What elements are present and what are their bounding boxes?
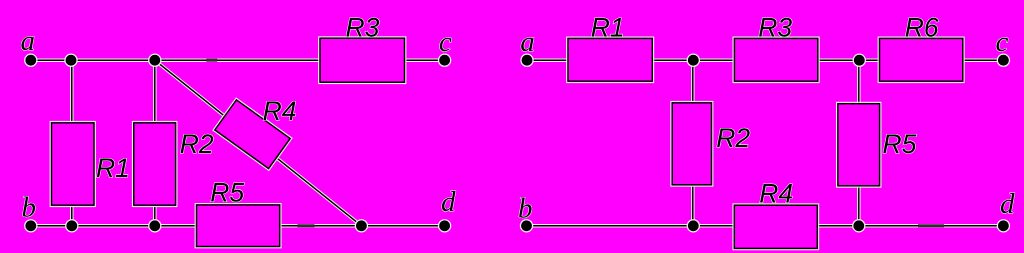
svg-text:R6: R6 <box>905 13 939 43</box>
node d terminal dot (right circuit) <box>997 219 1010 232</box>
node c terminal dot (right circuit) <box>997 54 1010 67</box>
resistor R1 (right circuit) <box>568 38 652 81</box>
node b terminal dot (right circuit) <box>520 219 533 232</box>
junction bottom-1 (left circuit) <box>65 219 78 232</box>
resistor R2 (left circuit) <box>134 123 176 205</box>
wire: thick segment on left top rail <box>206 59 217 62</box>
wire: left circuit diagonal branch through R4 <box>155 60 362 226</box>
svg-text:R5: R5 <box>210 177 244 207</box>
svg-text:d: d <box>1000 188 1015 220</box>
node b terminal dot (left circuit) <box>24 219 37 232</box>
svg-text:R5: R5 <box>883 129 917 159</box>
svg-text:b: b <box>22 192 37 224</box>
svg-text:b: b <box>518 192 533 224</box>
node d terminal dot (left circuit) <box>438 219 451 232</box>
resistor R4 (right circuit) <box>734 205 817 248</box>
svg-text:R1: R1 <box>591 13 625 43</box>
junction bottom-2 (right circuit) <box>852 219 865 232</box>
svg-text:R3: R3 <box>758 13 792 43</box>
resistor R3 (left circuit) <box>320 38 405 82</box>
resistor R4 rotated (left circuit) <box>215 100 290 169</box>
junction bottom-2 (left circuit) <box>148 219 161 232</box>
svg-text:a: a <box>520 26 535 58</box>
resistor R5 (right circuit) <box>838 104 880 186</box>
svg-text:R2: R2 <box>716 123 750 153</box>
node c terminal dot (left circuit) <box>438 54 451 67</box>
svg-text:d: d <box>441 186 456 218</box>
svg-text:R4: R4 <box>263 96 297 126</box>
node a terminal dot (left circuit) <box>24 54 37 67</box>
wire: left circuit vertical branch through R2 <box>153 60 157 226</box>
junction bottom-1 (right circuit) <box>687 219 700 232</box>
wire: left circuit top rail a-c <box>31 58 445 62</box>
wire: right circuit top rail a-c <box>527 58 1003 62</box>
node a terminal dot (right circuit) <box>520 54 533 67</box>
junction bottom-3 (left circuit) <box>355 219 368 232</box>
junction top-1 (left circuit) <box>64 54 77 67</box>
resistor R6 (right circuit) <box>880 38 963 81</box>
wire: right circuit bottom rail b-d <box>527 224 1004 228</box>
resistor R5 (left circuit) <box>197 205 280 247</box>
svg-text:R1: R1 <box>96 153 130 183</box>
wire: right circuit vertical branch through R2 <box>691 60 695 226</box>
resistor R2 (right circuit) <box>672 103 711 185</box>
svg-text:R2: R2 <box>180 129 214 159</box>
resistor R3 (right circuit) <box>734 38 817 81</box>
wire: left circuit bottom rail b-d <box>31 224 445 228</box>
wire: left circuit vertical branch through R1 <box>70 60 74 226</box>
svg-text:a: a <box>21 25 36 57</box>
svg-text:c: c <box>439 26 452 58</box>
wire: thick segment on left bottom rail <box>297 224 314 227</box>
junction top-2 (right circuit) <box>853 54 866 67</box>
svg-text:c: c <box>996 26 1009 58</box>
wire: right circuit vertical branch through R5 <box>857 60 861 226</box>
svg-text:R4: R4 <box>759 179 793 209</box>
wire: thick segment on right bottom rail <box>918 224 944 227</box>
junction top-2 (left circuit) <box>148 54 161 67</box>
svg-text:R3: R3 <box>346 12 380 42</box>
resistor R1 (left circuit) <box>52 123 95 205</box>
junction top-1 (right circuit) <box>687 54 700 67</box>
